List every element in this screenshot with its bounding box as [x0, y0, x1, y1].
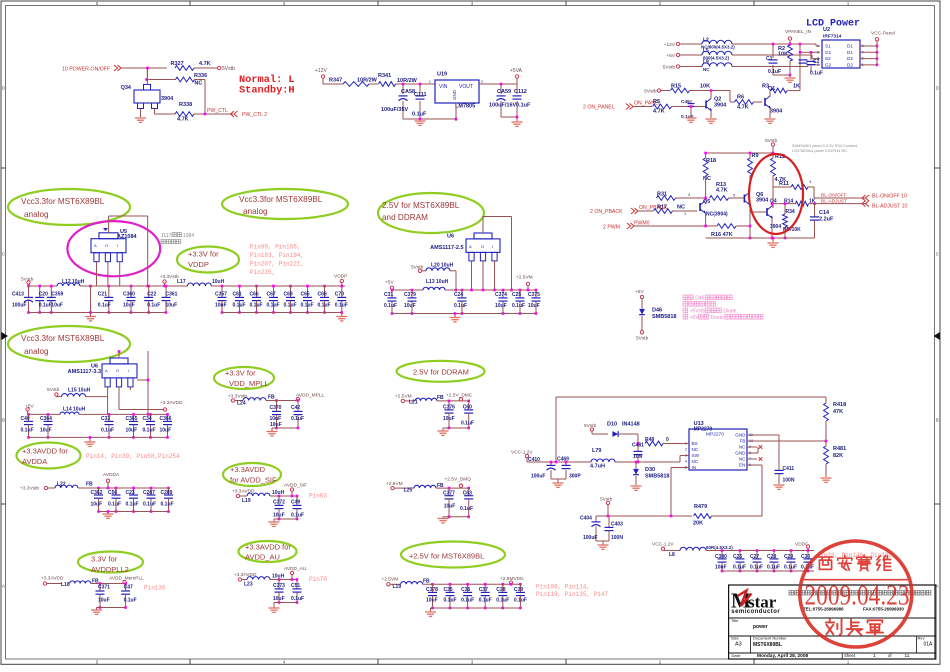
- svg-text:C29: C29: [784, 554, 793, 560]
- svg-text:MST6X89BL: MST6X89BL: [753, 642, 782, 648]
- svg-text:5Vstb: 5Vstb: [411, 265, 424, 271]
- svg-text:BL-ON/OFF: BL-ON/OFF: [821, 193, 847, 199]
- svg-text:L17: L17: [177, 279, 186, 285]
- svg-text:10N: 10N: [633, 454, 643, 460]
- svg-text:C378: C378: [426, 587, 438, 593]
- svg-text:+2.5V_DMC: +2.5V_DMC: [446, 393, 473, 399]
- svg-text:C111: C111: [414, 92, 427, 98]
- svg-text:MP2270: MP2270: [706, 432, 724, 438]
- svg-text:10uF: 10uF: [91, 501, 103, 507]
- svg-text:47K: 47K: [833, 409, 843, 415]
- svg-text:L13 10uH: L13 10uH: [426, 279, 449, 285]
- svg-text:0.1uF: 0.1uF: [767, 565, 780, 571]
- svg-text:C361: C361: [166, 292, 178, 298]
- svg-text:+3.3AVDD for: +3.3AVDD for: [245, 542, 291, 551]
- svg-text:+5V: +5V: [666, 53, 675, 59]
- svg-text:10uF: 10uF: [426, 598, 438, 604]
- svg-text:C377: C377: [443, 490, 455, 496]
- svg-text:Sheet: Sheet: [844, 653, 856, 658]
- svg-text:0.1uF: 0.1uF: [291, 596, 304, 602]
- svg-text:0: 0: [666, 437, 669, 443]
- svg-text:B: B: [936, 418, 939, 423]
- svg-text:0.1uF: 0.1uF: [681, 114, 694, 120]
- svg-text:5Vstb: 5Vstb: [222, 66, 235, 72]
- svg-text:FB: FB: [423, 578, 430, 584]
- svg-text:A3: A3: [735, 642, 742, 648]
- svg-text:D2: D2: [847, 56, 853, 61]
- svg-text:NC: NC: [692, 447, 699, 452]
- svg-text:0.1uF: 0.1uF: [124, 598, 137, 604]
- svg-text:S2: S2: [825, 56, 831, 61]
- svg-text:10uF: 10uF: [715, 565, 727, 571]
- svg-text:+2.5VM: +2.5VM: [382, 577, 399, 583]
- svg-text:analog: analog: [24, 347, 49, 356]
- svg-text:0.1uF: 0.1uF: [267, 303, 280, 309]
- svg-text:10uF: 10uF: [404, 303, 416, 309]
- svg-text:+5V: +5V: [385, 280, 394, 286]
- svg-text:NC: NC: [194, 81, 202, 87]
- svg-text:A: A: [105, 368, 108, 373]
- svg-text:D1: D1: [847, 50, 853, 55]
- svg-text:LG/CMO/AU panel 0-5V,R34 NC: LG/CMO/AU panel 0-5V,R34 NC: [792, 149, 847, 153]
- svg-text:BL-ADJUST 10: BL-ADJUST 10: [872, 204, 907, 210]
- svg-text:IRF7314: IRF7314: [823, 34, 842, 40]
- svg-text:Diode,: Diode,: [723, 309, 737, 315]
- svg-text:0.1uF: 0.1uF: [39, 303, 52, 309]
- svg-text:R5: R5: [653, 99, 660, 105]
- svg-text:2 ON_PBACK: 2 ON_PBACK: [590, 209, 623, 215]
- svg-text:10K: 10K: [700, 84, 710, 90]
- svg-text:A: A: [2, 584, 5, 589]
- svg-text:R338: R338: [179, 102, 192, 108]
- svg-text:10uH: 10uH: [212, 279, 225, 285]
- svg-text:C376: C376: [443, 404, 455, 410]
- svg-text:C38: C38: [496, 587, 505, 593]
- svg-text:100uF/16V: 100uF/16V: [489, 103, 517, 109]
- svg-text:2.5V for DDRAM: 2.5V for DDRAM: [413, 368, 469, 377]
- svg-text:4.7uH: 4.7uH: [590, 464, 605, 470]
- svg-text:Date:: Date:: [732, 653, 742, 658]
- svg-text:C23: C23: [126, 490, 135, 496]
- svg-text:Pin119, Pin135, P147: Pin119, Pin135, P147: [536, 591, 608, 598]
- svg-text:S1: S1: [825, 44, 831, 49]
- svg-text:AVDD_AU: AVDD_AU: [245, 553, 280, 562]
- svg-text:BS: BS: [692, 441, 698, 446]
- svg-text:NC: NC: [739, 457, 746, 462]
- svg-text:C40: C40: [21, 416, 30, 422]
- svg-text:5Vstb: 5Vstb: [600, 497, 613, 503]
- svg-text:C36: C36: [461, 587, 470, 593]
- svg-text:C112: C112: [514, 89, 527, 95]
- svg-text:100N: 100N: [783, 478, 795, 484]
- svg-text:VDDP: VDDP: [188, 260, 209, 269]
- svg-text:VDD_MPLL: VDD_MPLL: [229, 379, 269, 388]
- svg-text:L18: L18: [61, 582, 70, 588]
- svg-text:L20 10uH: L20 10uH: [431, 262, 454, 268]
- svg-text:AVDDA: AVDDA: [103, 472, 120, 478]
- svg-text:0.1uF: 0.1uF: [768, 69, 781, 75]
- svg-text:O: O: [481, 244, 484, 249]
- svg-text:C24: C24: [454, 292, 463, 298]
- svg-text:L19: L19: [393, 584, 402, 590]
- svg-text:G1: G1: [825, 50, 832, 55]
- svg-text:+3.3AVDD: +3.3AVDD: [230, 465, 266, 474]
- svg-text:AVDDPLL2: AVDDPLL2: [91, 565, 129, 574]
- svg-text:FB: FB: [86, 482, 93, 488]
- svg-text:5Vstb: 5Vstb: [47, 387, 60, 393]
- svg-text:FB: FB: [437, 395, 444, 401]
- svg-text:C410: C410: [528, 457, 540, 463]
- svg-text:0.1uF: 0.1uF: [143, 428, 156, 434]
- svg-text:Pin235,: Pin235,: [250, 269, 275, 276]
- svg-text:SAMSUNG panel 0-3.3V R34 Conne: SAMSUNG panel 0-3.3V R34 Connect: [792, 144, 858, 148]
- svg-text:10uF: 10uF: [126, 428, 138, 434]
- svg-text:PW_CTL 2: PW_CTL 2: [242, 112, 267, 118]
- svg-text:10uF: 10uF: [215, 303, 227, 309]
- svg-text:C25: C25: [512, 292, 521, 298]
- svg-text:IN: IN: [692, 465, 697, 470]
- svg-text:100uF: 100uF: [583, 535, 597, 541]
- svg-text:0.1uF: 0.1uF: [126, 501, 139, 507]
- svg-text:C20: C20: [39, 292, 48, 298]
- svg-text:C366: C366: [160, 416, 172, 422]
- svg-text:0.1uF: 0.1uF: [98, 303, 111, 309]
- svg-text:10uF: 10uF: [51, 303, 63, 309]
- svg-text:C469: C469: [557, 457, 569, 463]
- svg-text:C27: C27: [750, 554, 759, 560]
- svg-text:0.1uF: 0.1uF: [461, 421, 474, 427]
- svg-text:+5VA: +5VA: [510, 68, 523, 74]
- svg-text:VIN: VIN: [439, 84, 448, 90]
- svg-text:60R(4.5X3.2): 60R(4.5X3.2): [706, 545, 733, 550]
- svg-text:L22: L22: [57, 482, 66, 488]
- svg-text:and DDRAM: and DDRAM: [382, 213, 428, 222]
- svg-text:R34: R34: [786, 209, 795, 215]
- svg-text:0.1uF: 0.1uF: [291, 416, 304, 422]
- svg-text:VPANEL_IN: VPANEL_IN: [785, 29, 812, 35]
- svg-text:4.7K: 4.7K: [716, 188, 728, 194]
- svg-text:C34: C34: [143, 416, 152, 422]
- svg-text:L14 10uH: L14 10uH: [63, 407, 86, 413]
- svg-text:3: 3: [817, 57, 819, 61]
- svg-text:NC: NC: [739, 445, 746, 450]
- svg-text:Pin63: Pin63: [309, 493, 327, 500]
- svg-text:+3.3V for: +3.3V for: [188, 250, 219, 259]
- svg-text:C379: C379: [404, 292, 416, 298]
- svg-text:01A: 01A: [924, 642, 934, 648]
- svg-text:3904: 3904: [161, 96, 174, 102]
- svg-text:AZ1084: AZ1084: [117, 234, 138, 240]
- svg-text:100uF/35V: 100uF/35V: [381, 107, 409, 113]
- svg-text:2.2uF: 2.2uF: [819, 217, 834, 223]
- svg-text:82K: 82K: [833, 453, 843, 459]
- svg-text:C481: C481: [632, 443, 644, 449]
- svg-text:0.1uF: 0.1uF: [479, 598, 492, 604]
- svg-text:C413: C413: [12, 292, 24, 298]
- svg-text:10uF: 10uF: [166, 303, 178, 309]
- svg-text:+2.5V_DMQ: +2.5V_DMQ: [445, 477, 472, 483]
- svg-text:,: ,: [717, 302, 718, 308]
- svg-text:1: 1: [873, 653, 876, 659]
- svg-text:10uF: 10uF: [528, 303, 540, 309]
- svg-text:D46: D46: [652, 308, 662, 314]
- svg-text:Pin136: Pin136: [144, 584, 166, 591]
- svg-text:O: O: [105, 243, 108, 248]
- svg-text:AVDDA: AVDDA: [22, 457, 47, 466]
- svg-text:20K: 20K: [693, 521, 703, 527]
- svg-text:MP2270: MP2270: [694, 426, 713, 432]
- svg-text:5Vstb: 5Vstb: [21, 277, 34, 283]
- svg-text:C68: C68: [318, 292, 327, 298]
- svg-text:10 POWER-ON/OFF: 10 POWER-ON/OFF: [62, 67, 110, 73]
- svg-text:L79: L79: [592, 448, 601, 454]
- svg-text:0.1uF: 0.1uF: [161, 501, 174, 507]
- svg-text:VCC-1.2V: VCC-1.2V: [511, 450, 533, 456]
- svg-text:C51: C51: [291, 583, 300, 589]
- svg-text:0.1uF: 0.1uF: [750, 565, 763, 571]
- svg-text:0.1uF: 0.1uF: [512, 303, 525, 309]
- svg-text:10uF: 10uF: [40, 428, 52, 434]
- svg-text:C360: C360: [123, 292, 135, 298]
- svg-text:VOUT: VOUT: [459, 84, 473, 90]
- svg-text:Standby:H: Standby:H: [239, 84, 295, 96]
- svg-text:SMB5818: SMB5818: [645, 474, 669, 480]
- svg-text:0.1uF: 0.1uF: [250, 303, 263, 309]
- svg-text:0.1uF: 0.1uF: [461, 598, 474, 604]
- svg-text:Rev: Rev: [918, 635, 925, 640]
- svg-text:+3.3AVDD: +3.3AVDD: [160, 400, 183, 406]
- svg-text:A: A: [94, 243, 97, 248]
- svg-text:C380: C380: [715, 554, 727, 560]
- svg-text:0.1uF: 0.1uF: [514, 598, 527, 604]
- svg-text:Title: Title: [731, 618, 739, 623]
- svg-text:C403: C403: [611, 522, 623, 528]
- svg-text:U2: U2: [823, 27, 830, 33]
- svg-text:C374: C374: [495, 292, 507, 298]
- svg-text:C1: C1: [766, 56, 773, 62]
- svg-text:10R/2W: 10R/2W: [397, 78, 418, 84]
- svg-text:U19: U19: [437, 72, 447, 78]
- svg-text:C61: C61: [233, 292, 242, 298]
- svg-text:4: 4: [817, 63, 819, 67]
- svg-text:C404: C404: [580, 516, 592, 522]
- svg-text:C33: C33: [101, 416, 110, 422]
- svg-text:CA58: CA58: [401, 89, 415, 95]
- svg-text:R418: R418: [833, 402, 846, 408]
- svg-text:+2.5V for MST6X89BL: +2.5V for MST6X89BL: [409, 552, 484, 561]
- svg-text:5Vstb: 5Vstb: [663, 64, 676, 70]
- svg-text:G2: G2: [825, 63, 832, 68]
- svg-text:D: D: [2, 86, 5, 91]
- svg-text:B: B: [2, 418, 5, 423]
- svg-text:3904: 3904: [714, 103, 727, 109]
- svg-text:AVDD_SIF: AVDD_SIF: [284, 483, 307, 489]
- svg-text:C31: C31: [384, 292, 393, 298]
- svg-text:1K: 1K: [793, 84, 800, 90]
- svg-text:C30: C30: [801, 554, 810, 560]
- svg-text:FB: FB: [437, 483, 444, 489]
- svg-text:C45: C45: [681, 99, 690, 105]
- svg-text:I: I: [117, 243, 118, 248]
- svg-text:0.1uF: 0.1uF: [784, 565, 797, 571]
- svg-text:U6: U6: [447, 234, 454, 240]
- svg-text:L25: L25: [404, 487, 413, 493]
- svg-text:10uF: 10uF: [273, 596, 285, 602]
- svg-text:R347: R347: [329, 78, 342, 84]
- svg-text:C21: C21: [98, 292, 107, 298]
- svg-text:AVDD_MPLL: AVDD_MPLL: [296, 393, 325, 399]
- svg-text:Document Number: Document Number: [753, 635, 787, 640]
- svg-text:4.7K: 4.7K: [737, 105, 749, 111]
- svg-text:C362: C362: [91, 490, 103, 496]
- svg-text:+5Vstb: +5Vstb: [690, 309, 706, 315]
- svg-text:D30: D30: [645, 467, 655, 473]
- svg-text:EN: EN: [739, 463, 745, 468]
- svg-text:Vcc3.3for MST6X89BL: Vcc3.3for MST6X89BL: [21, 334, 105, 343]
- svg-text:+3.3AVDD: +3.3AVDD: [41, 576, 64, 582]
- svg-text:Pin183, Pin194,: Pin183, Pin194,: [250, 252, 304, 259]
- svg-text:semiconductor: semiconductor: [731, 609, 780, 615]
- svg-text:C373: C373: [273, 583, 285, 589]
- svg-text:NC(3904): NC(3904): [706, 212, 728, 218]
- svg-text:0.1uF: 0.1uF: [101, 428, 114, 434]
- svg-text:+3.3V for: +3.3V for: [225, 369, 256, 378]
- svg-text:0.1uF: 0.1uF: [444, 598, 457, 604]
- svg-text:AMS1117-2.5: AMS1117-2.5: [430, 245, 463, 251]
- svg-text:C370: C370: [270, 405, 282, 411]
- svg-text:GND: GND: [452, 89, 457, 100]
- svg-text:R18: R18: [706, 158, 716, 164]
- svg-text:10K: 10K: [778, 52, 788, 58]
- svg-text:10uF: 10uF: [444, 503, 456, 509]
- svg-text:Q5: Q5: [703, 199, 710, 205]
- svg-text:L21: L21: [409, 400, 418, 406]
- svg-text:R327: R327: [171, 61, 184, 67]
- svg-text:11: 11: [905, 653, 910, 659]
- svg-text:C60: C60: [463, 404, 472, 410]
- svg-text:R17: R17: [657, 205, 667, 211]
- svg-text:5Vstb: 5Vstb: [644, 88, 657, 94]
- svg-text:FB: FB: [268, 395, 275, 401]
- svg-text:0.1uF: 0.1uF: [810, 71, 823, 77]
- svg-text:5Vstb: 5Vstb: [584, 423, 597, 429]
- svg-text:R479: R479: [694, 504, 707, 510]
- svg-text:analog: analog: [24, 210, 49, 219]
- svg-text:NC: NC: [703, 176, 711, 182]
- svg-text:I: I: [492, 244, 493, 249]
- svg-text:R341: R341: [378, 73, 391, 79]
- svg-text:0.1uF: 0.1uF: [454, 303, 467, 309]
- svg-text:C14: C14: [819, 210, 830, 216]
- svg-text:L8: L8: [669, 552, 675, 558]
- svg-text:10uF: 10uF: [160, 428, 172, 434]
- svg-text:R11: R11: [779, 181, 789, 187]
- svg-text:+2.5VM: +2.5VM: [386, 481, 403, 487]
- svg-text:100uF: 100uF: [531, 474, 545, 480]
- svg-text:3.3V for: 3.3V for: [91, 555, 118, 564]
- svg-text:0.1uF: 0.1uF: [284, 303, 297, 309]
- svg-text:C49: C49: [291, 500, 300, 506]
- svg-text:4.7K: 4.7K: [199, 61, 211, 67]
- svg-text:C70: C70: [335, 292, 344, 298]
- svg-text:L15 10uH: L15 10uH: [68, 388, 91, 394]
- svg-text:2 ON_PANEL: 2 ON_PANEL: [583, 105, 615, 111]
- svg-text:10R/2W: 10R/2W: [357, 78, 378, 84]
- svg-text:I: I: [128, 368, 129, 373]
- svg-text:+5V: +5V: [635, 289, 644, 295]
- svg-text:2 PWM: 2 PWM: [603, 225, 620, 231]
- svg-text:C66: C66: [250, 292, 259, 298]
- svg-text:LCD Power: LCD Power: [806, 19, 860, 30]
- svg-text:C56: C56: [108, 490, 117, 496]
- svg-text:R3: R3: [762, 84, 769, 90]
- svg-text:L2: L2: [703, 38, 709, 44]
- svg-text:NC: NC: [692, 459, 699, 464]
- svg-text:L9: L9: [703, 60, 709, 66]
- svg-text:C42: C42: [291, 405, 300, 411]
- svg-text:VDDP: VDDP: [334, 274, 347, 280]
- svg-text:C: C: [2, 252, 5, 257]
- svg-text:AVDD_MemPLL: AVDD_MemPLL: [109, 576, 144, 582]
- svg-text:3904: 3904: [770, 109, 783, 115]
- svg-text:100N: 100N: [611, 535, 623, 541]
- svg-text:R48: R48: [645, 437, 654, 443]
- svg-text:C357: C357: [215, 292, 227, 298]
- svg-text:AMS1117-3.3: AMS1117-3.3: [68, 369, 101, 375]
- svg-text:PW_CTL: PW_CTL: [207, 108, 228, 114]
- svg-text:R336: R336: [194, 73, 207, 79]
- svg-text:BL-ADJUST: BL-ADJUST: [821, 198, 847, 204]
- svg-text:C411: C411: [783, 466, 795, 472]
- svg-text:10uF: 10uF: [273, 512, 285, 518]
- svg-text:C26: C26: [733, 554, 742, 560]
- svg-text:+5V: +5V: [690, 315, 700, 321]
- svg-text:IN4148: IN4148: [622, 422, 640, 428]
- svg-text:Diode: Diode: [711, 315, 724, 321]
- svg-text:10uF: 10uF: [98, 598, 110, 604]
- svg-text:Vcc3.3for MST6X89BL: Vcc3.3for MST6X89BL: [21, 197, 105, 206]
- svg-text:for AVDD_SIF: for AVDD_SIF: [230, 476, 277, 485]
- svg-text:Pin207, Pin221,: Pin207, Pin221,: [250, 261, 304, 268]
- svg-text:C28: C28: [767, 554, 776, 560]
- svg-text:L19: L19: [242, 498, 251, 504]
- svg-text:0.1uF: 0.1uF: [384, 303, 397, 309]
- svg-text:0.1uF: 0.1uF: [147, 303, 160, 309]
- svg-text:2009.04.23: 2009.04.23: [805, 580, 910, 611]
- svg-text:SMB5818: SMB5818: [652, 314, 676, 320]
- svg-text:10uF: 10uF: [443, 416, 455, 422]
- svg-text:C375: C375: [528, 292, 540, 298]
- svg-text:+12V: +12V: [664, 42, 676, 48]
- svg-text:C63: C63: [463, 490, 472, 496]
- svg-text:VCC-Panel: VCC-Panel: [871, 31, 895, 37]
- svg-text:D46: D46: [695, 296, 704, 302]
- svg-text:C359: C359: [51, 292, 63, 298]
- svg-text:Pin108, Pin114,: Pin108, Pin114,: [536, 583, 590, 590]
- svg-text:LM7805: LM7805: [455, 104, 475, 110]
- svg-text:10uF: 10uF: [123, 303, 135, 309]
- svg-text:C365: C365: [126, 416, 138, 422]
- svg-text:10uF: 10uF: [495, 303, 507, 309]
- svg-text:4: 4: [685, 460, 687, 464]
- svg-text:4.7K: 4.7K: [177, 117, 189, 123]
- svg-text:0.1uF: 0.1uF: [21, 428, 34, 434]
- svg-text:L5: L5: [703, 48, 709, 54]
- svg-text:R15: R15: [671, 84, 681, 90]
- svg-text:1084: 1084: [183, 233, 194, 239]
- svg-text:0.1uF: 0.1uF: [460, 506, 473, 512]
- svg-text:R9: R9: [752, 153, 759, 159]
